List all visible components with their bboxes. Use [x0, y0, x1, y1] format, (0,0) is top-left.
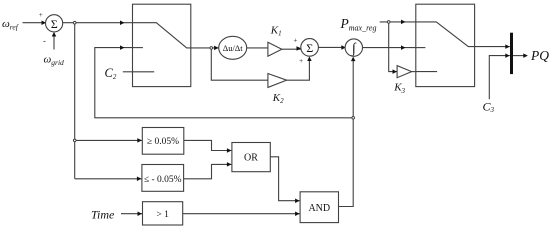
node junction J1 after S1: [73, 21, 76, 24]
wire GT to AND: [183, 213, 300, 215]
svg-text:≥ 0.05%: ≥ 0.05%: [147, 137, 179, 147]
svg-text:Σ: Σ: [306, 41, 313, 55]
wire du/dt to K1 gain: [247, 47, 268, 49]
svg-text:+: +: [293, 36, 297, 44]
gain K2: [268, 74, 287, 88]
wire SW1 internal input1 and diagonal: [133, 23, 191, 48]
wire S1 output to switch block SW1: [63, 22, 133, 24]
svg-text:PQ: PQ: [530, 48, 549, 63]
svg-text:+: +: [39, 11, 43, 19]
mux bar: [510, 33, 513, 74]
wire top branch to SW2 input1: [380, 21, 416, 23]
comparator block GT 1: [143, 202, 183, 225]
wire AND control loop to SW1 input2: [95, 48, 353, 118]
wire C3 to mux bar: [489, 56, 510, 100]
wire J1 down to threshold branch: [74, 24, 76, 179]
wire Time to GT block: [121, 213, 142, 215]
svg-text:OR: OR: [244, 153, 258, 164]
wire PQ output: [513, 55, 527, 57]
wire omega_grid to S1: [53, 33, 55, 50]
logic block OR: [232, 143, 270, 172]
svg-text:Δu/Δt: Δu/Δt: [223, 43, 244, 53]
svg-text:> 1: > 1: [156, 210, 169, 220]
node junction J2 before rate limiter: [210, 47, 213, 50]
wire K1 to summer S2: [282, 48, 301, 49]
wire to threshold block LE: [75, 178, 142, 180]
wire SW2 output to mux bar: [475, 46, 510, 48]
node junction J4 on left vertical: [73, 139, 76, 142]
node junction J3 on top branch: [387, 21, 390, 24]
wire J3 down to K3 gain: [389, 23, 397, 71]
wire SW1 internal input2 stub: [133, 47, 143, 49]
summer S2: [301, 39, 319, 57]
node junction J5 on riser: [352, 117, 355, 120]
wire K3 to SW2 input3: [412, 71, 416, 73]
svg-text:AND: AND: [308, 203, 330, 214]
svg-text:≤ - 0.05%: ≤ - 0.05%: [144, 175, 182, 185]
wire K2 to S2 bottom: [287, 58, 310, 81]
wire SW1 output to rate limiter: [191, 47, 219, 49]
switch block SW2: [416, 4, 475, 86]
wire SW2 internal input1 and diagonal: [416, 22, 475, 47]
wire omega_ref to summer S1: [23, 22, 46, 24]
wire integrator to switch block SW2: [363, 47, 416, 49]
wire GE to OR: [184, 140, 232, 150]
comparator block GE +0.05%: [142, 128, 184, 155]
wire LE to OR: [184, 164, 232, 178]
svg-text:Σ: Σ: [51, 17, 58, 31]
wire SW2 internal input3 stub: [416, 71, 437, 73]
wire AND output rising to integrator reset: [339, 58, 354, 207]
wire S2 to integrator: [318, 46, 345, 48]
integrator block: [345, 39, 362, 56]
rate block du/dt: [219, 36, 247, 59]
summer S1: [46, 15, 63, 32]
comparator block LE -0.05%: [142, 165, 184, 192]
svg-text:Time: Time: [91, 208, 115, 222]
svg-text:+: +: [299, 57, 303, 65]
switch block SW1: [133, 4, 191, 86]
gain K3: [397, 66, 412, 78]
svg-text:-: -: [43, 36, 46, 46]
wire J2 down to K2 gain: [211, 49, 268, 80]
wire C2 to SW1: [123, 71, 133, 73]
wire SW2 internal input2 stub: [416, 47, 426, 49]
wire OR to AND: [270, 157, 299, 201]
gain K1: [268, 42, 282, 56]
wire SW1 internal input3 stub: [133, 71, 155, 73]
wire J4 to threshold block GE: [76, 139, 142, 141]
logic block AND: [300, 192, 338, 223]
